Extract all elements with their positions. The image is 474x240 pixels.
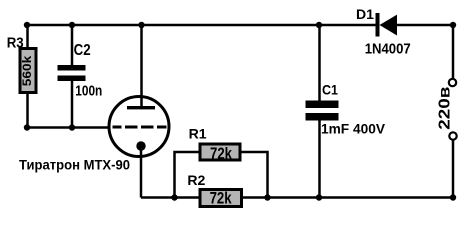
svg-text:D1: D1 [356,6,374,22]
svg-text:R2: R2 [187,172,205,188]
svg-text:72k: 72k [210,144,232,163]
svg-text:C2: C2 [74,42,91,59]
svg-text:220в: 220в [436,87,453,130]
svg-text:R3: R3 [7,35,24,52]
svg-text:560k: 560k [22,55,34,86]
svg-text:R1: R1 [189,126,207,142]
svg-text:Тиратрон МТХ-90: Тиратрон МТХ-90 [19,157,130,173]
svg-text:C1: C1 [322,82,338,98]
svg-text:72k: 72k [210,189,232,208]
svg-text:100n: 100n [75,84,102,100]
svg-text:1N4007: 1N4007 [365,41,411,57]
svg-text:1mF 400V: 1mF 400V [321,120,386,136]
